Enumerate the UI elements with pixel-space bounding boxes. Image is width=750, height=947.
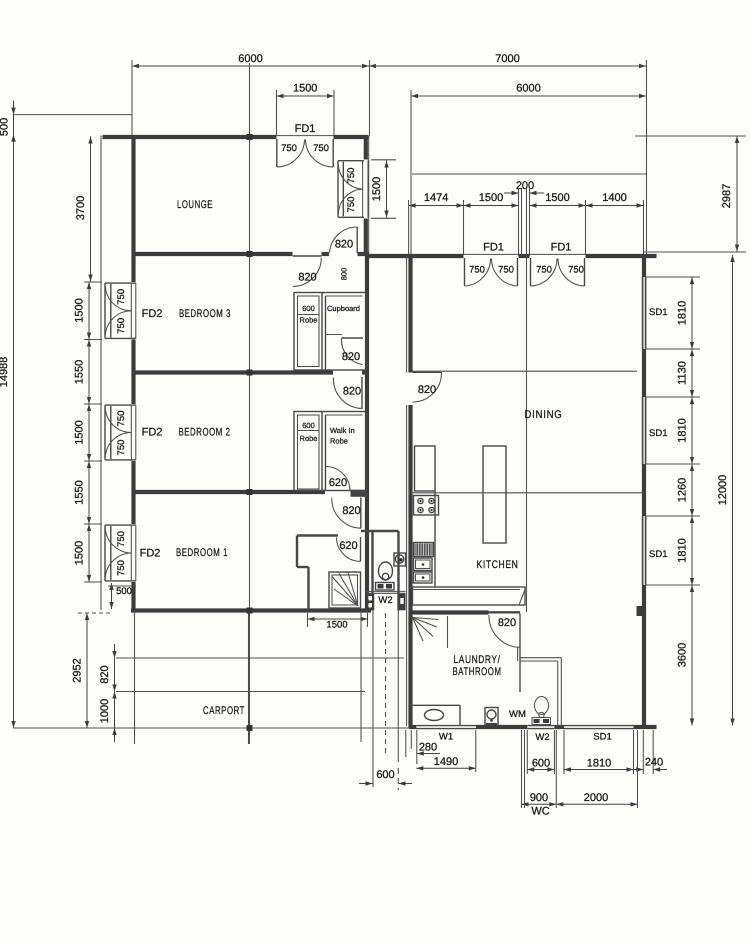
svg-text:500: 500 (116, 586, 132, 597)
washing machine WM (485, 708, 498, 726)
svg-text:FD2: FD2 (140, 548, 161, 560)
dim 12000 right building depth (730, 255, 734, 726)
svg-text:820: 820 (335, 239, 353, 251)
wall bedroom1 south (131, 608, 371, 612)
dim 600 W2 (527, 730, 554, 774)
dim column SD1 windows (690, 277, 694, 349)
wall WC column extensions (372, 611, 374, 788)
svg-text:FD1: FD1 (483, 242, 504, 254)
svg-text:Robe: Robe (300, 434, 318, 443)
window marks SD1 east wall (641, 277, 646, 349)
svg-text:BEDROOM 3: BEDROOM 3 (179, 308, 231, 320)
extension lines SD1 dims (646, 276, 700, 278)
door 820 dining entry (413, 372, 442, 402)
wall bedroom2 / bedroom1 (132, 490, 326, 494)
carport posts lines (134, 611, 136, 744)
window W1 south wall (416, 725, 476, 727)
svg-text:820: 820 (342, 505, 360, 517)
dim 500 below bedroom1 bay (108, 583, 136, 609)
svg-text:W1: W1 (439, 732, 453, 743)
wall left building east (lounge) (364, 135, 368, 159)
dim 1810 SD1 south (564, 730, 634, 774)
sink drainer (414, 543, 434, 557)
dim 200 mullion (504, 180, 544, 195)
svg-text:820: 820 (498, 617, 516, 629)
wall nib east wall detail (637, 606, 644, 616)
svg-text:750: 750 (116, 531, 127, 547)
dim 3700 lounge depth (88, 137, 92, 282)
door FD1 lounge north double (277, 139, 333, 167)
dim 1000 carport (112, 678, 116, 743)
wall right building south (409, 725, 416, 729)
dim 1490 W1 (416, 730, 476, 772)
dim 820 carport (112, 644, 116, 706)
door FD2 bay bedroom2 (105, 405, 136, 460)
toilet right unit (532, 697, 551, 725)
shower laundry (413, 616, 448, 648)
toilet left unit (376, 562, 395, 590)
svg-text:1000: 1000 (99, 699, 111, 723)
svg-text:BEDROOM 1: BEDROOM 1 (176, 547, 228, 559)
svg-text:1500: 1500 (74, 298, 86, 322)
svg-text:1500: 1500 (74, 420, 86, 444)
svg-text:820: 820 (343, 386, 361, 398)
verandah line right building (412, 173, 647, 175)
door 820 cupboard (341, 338, 363, 365)
svg-text:240: 240 (645, 757, 663, 769)
svg-text:750: 750 (116, 289, 127, 305)
dim 6000 left building width (132, 53, 369, 68)
dim column for left door bays (87, 282, 91, 340)
outer face line of west door bays (100, 136, 102, 611)
dim 1500 shower (308, 611, 368, 631)
cupboard bedroom3 (326, 296, 363, 335)
svg-text:750: 750 (536, 265, 552, 276)
wall lounge / bedroom3 (132, 252, 293, 256)
svg-text:1400: 1400 (602, 192, 626, 204)
wall nib block east of bed1 door (351, 490, 368, 497)
svg-text:750: 750 (116, 318, 127, 334)
dim 7000 right building width (369, 53, 646, 68)
svg-text:1810: 1810 (677, 418, 689, 442)
svg-text:1810: 1810 (677, 301, 689, 325)
kitchen bench west (415, 446, 436, 491)
wall face line lounge east outer (368, 136, 370, 255)
wall right building west (408, 254, 412, 373)
svg-text:FD2: FD2 (142, 427, 163, 439)
extension line left of 6000 dim (131, 60, 133, 136)
dim 1500 lounge FD1 door (277, 83, 335, 99)
dim row 1474/1500/1500/1400 (409, 192, 464, 208)
svg-text:620: 620 (339, 540, 357, 552)
dim 1500 lounge east bay (384, 161, 388, 218)
grid line vertical left building (249, 63, 251, 744)
wall face line right building west inner (406, 256, 408, 373)
svg-text:750: 750 (116, 560, 127, 576)
svg-text:2000: 2000 (584, 792, 608, 804)
grid nodes left (247, 134, 253, 140)
svg-text:W2: W2 (378, 595, 392, 606)
svg-text:600: 600 (532, 758, 550, 770)
grid line horizontal dining (412, 370, 637, 372)
svg-text:600: 600 (302, 421, 315, 430)
svg-text:FD1: FD1 (295, 123, 316, 135)
window W2 left unit sill (366, 590, 405, 592)
svg-text:820: 820 (99, 665, 111, 683)
svg-text:1550: 1550 (74, 360, 86, 384)
svg-text:Robe: Robe (330, 437, 348, 446)
walk in robe bedroom2 (326, 415, 363, 446)
robe 600 bedroom2 (294, 412, 367, 491)
svg-text:820: 820 (342, 351, 360, 363)
svg-text:CARPORT: CARPORT (203, 705, 245, 717)
svg-text:800: 800 (340, 268, 349, 281)
svg-text:14988: 14988 (0, 357, 10, 388)
svg-text:750: 750 (498, 265, 514, 276)
dim 2000 (556, 730, 637, 808)
svg-text:BEDROOM 2: BEDROOM 2 (179, 427, 231, 439)
svg-text:500: 500 (0, 118, 11, 136)
svg-text:1500: 1500 (326, 620, 347, 631)
svg-text:Robe: Robe (300, 316, 318, 325)
door 820 bedroom2 entry (333, 377, 362, 409)
svg-text:1490: 1490 (434, 756, 458, 768)
svg-text:600: 600 (376, 769, 394, 781)
wall WC left unit (361, 531, 399, 611)
svg-text:KITCHEN: KITCHEN (477, 559, 519, 571)
window W2 south wall (527, 725, 554, 727)
svg-text:SD1: SD1 (649, 307, 667, 318)
dim 600 walkway (359, 769, 412, 786)
dim 900 WC (522, 730, 557, 818)
door 620 ensuite (337, 537, 361, 562)
svg-text:820: 820 (298, 272, 316, 284)
carport bottom edge (13, 727, 412, 729)
svg-text:1130: 1130 (677, 361, 689, 385)
svg-text:280: 280 (419, 742, 437, 754)
door 820 lounge south (330, 227, 358, 253)
svg-text:750: 750 (469, 265, 485, 276)
svg-text:750: 750 (116, 411, 127, 427)
svg-text:1500: 1500 (545, 192, 569, 204)
wall ensuite west step (297, 536, 338, 611)
grid line horizontal kitchen (409, 492, 644, 494)
door FD2 bay bedroom1 (105, 525, 136, 581)
svg-text:1260: 1260 (677, 478, 689, 502)
svg-text:12000: 12000 (717, 475, 729, 506)
svg-text:SD1: SD1 (593, 732, 611, 743)
dim 240 (629, 730, 667, 774)
svg-text:6000: 6000 (516, 83, 540, 95)
svg-text:750: 750 (281, 143, 297, 154)
kitchen drawers (414, 558, 433, 571)
svg-text:SD1: SD1 (649, 428, 667, 439)
svg-text:750: 750 (313, 143, 329, 154)
svg-text:1810: 1810 (677, 538, 689, 562)
window SD1 south wall (564, 725, 634, 727)
wall left building top (lounge north) (103, 135, 277, 139)
shower bedroom1 ensuite (329, 572, 361, 608)
wall right building east (642, 254, 646, 277)
svg-text:750: 750 (116, 440, 127, 456)
kitchen south bench (413, 587, 526, 605)
svg-text:3700: 3700 (75, 196, 87, 220)
svg-text:FD1: FD1 (551, 242, 572, 254)
svg-text:7000: 7000 (495, 53, 519, 65)
svg-text:LOUNGE: LOUNGE (177, 199, 213, 211)
dim 500 top-left setback (14, 114, 133, 116)
svg-text:W2: W2 (535, 732, 549, 743)
svg-text:1550: 1550 (74, 480, 86, 504)
dim 2987 verandah depth (635, 135, 746, 137)
svg-text:6000: 6000 (238, 53, 262, 65)
svg-text:900: 900 (530, 792, 548, 804)
room label LAUNDRY/BATHROOM (453, 654, 502, 678)
kitchen bench mid (434, 491, 436, 587)
svg-text:820: 820 (418, 384, 436, 396)
basin box left WC (394, 553, 406, 566)
stove cooktop (414, 496, 439, 516)
svg-text:WM: WM (509, 709, 526, 720)
svg-text:LAUNDRY/: LAUNDRY/ (454, 654, 501, 666)
dim 280 (406, 730, 440, 764)
extension line between 6000 and 7000 (369, 60, 371, 136)
svg-text:3600: 3600 (677, 643, 689, 667)
svg-text:SD1: SD1 (649, 549, 667, 560)
kitchen island bench (483, 446, 506, 543)
svg-text:WC: WC (531, 806, 549, 818)
svg-text:Cupboard: Cupboard (327, 304, 360, 313)
dim 2952 carport (85, 613, 89, 728)
svg-text:2987: 2987 (721, 184, 733, 208)
dim 6000 right building verandah (411, 83, 646, 99)
door 820 bedroom1 entry (332, 498, 361, 529)
svg-text:2952: 2952 (72, 658, 84, 682)
svg-text:1810: 1810 (587, 758, 611, 770)
grid line vertical right building (526, 256, 528, 612)
door bay lounge east wall 750/750 (338, 161, 368, 218)
svg-text:620: 620 (329, 477, 347, 489)
svg-text:1500: 1500 (74, 541, 86, 565)
wall right building north (409, 254, 464, 258)
door FD2 bay bedroom3 (105, 283, 136, 339)
wall left building west (131, 135, 135, 282)
door 620 walk-in robe (326, 466, 351, 490)
svg-text:1500: 1500 (371, 177, 383, 201)
svg-text:Walk In: Walk In (330, 426, 355, 435)
wall walkway south of lounge (369, 254, 411, 258)
svg-text:BATHROOM: BATHROOM (453, 666, 502, 678)
WC room right unit (518, 648, 562, 728)
laundry bench + basin (411, 705, 460, 725)
carport slab lines (116, 657, 404, 659)
svg-text:DINING: DINING (525, 409, 563, 421)
wall bedroom3 / bedroom2 (132, 370, 334, 374)
door FD1 dining west pair (465, 242, 518, 287)
door FD1 dining east pair (531, 242, 585, 287)
svg-text:1500: 1500 (293, 83, 317, 95)
door leaf closed across laundry opening (489, 611, 521, 613)
robe 600 bedroom3 (294, 293, 367, 371)
door 820 laundry (489, 614, 520, 693)
dim 14988 overall left side (11, 135, 15, 728)
svg-text:1474: 1474 (424, 192, 448, 204)
svg-text:750: 750 (568, 265, 584, 276)
door 820 bedroom3 entry (293, 256, 322, 287)
extension ticks for bay dims (84, 281, 102, 283)
svg-text:FD2: FD2 (142, 308, 163, 320)
svg-text:750: 750 (346, 168, 357, 184)
centre line WC dashed (385, 613, 387, 753)
wall spine east of bedrooms (365, 254, 369, 611)
extension lines FD1 dims (408, 200, 410, 254)
wall laundry north (409, 610, 489, 614)
svg-text:1500: 1500 (479, 192, 503, 204)
svg-text:600: 600 (302, 304, 315, 313)
svg-text:750: 750 (346, 197, 357, 213)
